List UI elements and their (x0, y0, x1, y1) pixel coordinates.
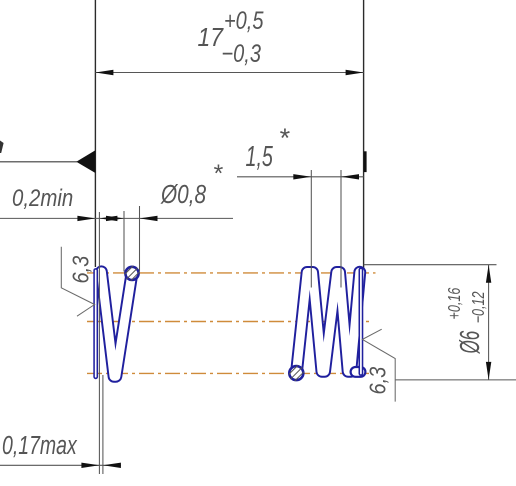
svg-text:6,3: 6,3 (364, 367, 391, 395)
spring: left group coil polyline (101, 272, 131, 377)
svg-text:*: * (213, 160, 224, 188)
shared dim line for 0,2min and diam 0,8 (0, 217, 233, 219)
extension line A (left end face plane, to 17 dim) (94, 0, 96, 267)
centerline bottom (wire axis lower) (87, 372, 370, 374)
dimension 0,17max: right arrowhead (103, 463, 121, 468)
dimension diam 6: bottom arrowhead (486, 362, 491, 380)
leader line with force arrow (0, 161, 77, 163)
svg-text:+0,5: +0,5 (224, 7, 264, 35)
svg-text:+0,16: +0,16 (445, 287, 465, 319)
roughness symbol left (61, 247, 94, 317)
dimension 0,17max: extension line C (102, 375, 104, 474)
centerline top (wire axis upper) (87, 272, 376, 274)
spring: left ground end face (double line) (93, 271, 98, 377)
force arrowhead (large filled triangle) (76, 150, 95, 173)
svg-text:17: 17 (198, 24, 225, 52)
dimension diam 0,8: right arrowhead (140, 216, 158, 221)
dimension 1,5: extension line right (340, 170, 342, 288)
spring: left wire cross-section circle (125, 266, 140, 281)
dimension diam 6: top extension line (364, 264, 497, 266)
centerline middle (spring axis) (87, 321, 371, 323)
extension line right main (right end face plane) (363, 0, 365, 269)
dimension 0,17max: left arrowhead (81, 463, 99, 468)
dimension 17: right arrowhead (346, 70, 364, 75)
dimension 1,5: left arrowhead (293, 174, 311, 179)
clipped mark at left edge (0, 141, 4, 154)
svg-text:Ø0,8: Ø0,8 (160, 180, 206, 209)
dimension 1,5: dim line (237, 176, 364, 178)
svg-text:6,3: 6,3 (67, 256, 94, 284)
dimension diam 0,8: left arrowhead (106, 216, 124, 221)
roughness symbol right (362, 329, 395, 401)
dimension diam 6: bottom extension line (395, 379, 516, 381)
dimension 1,5: right arrowhead (341, 174, 359, 179)
dimension 0,17max: dim line (0, 464, 121, 466)
right support thick bar (364, 151, 367, 172)
dimension 1,5: extension line left (310, 170, 312, 288)
svg-text:0,2min: 0,2min (12, 184, 73, 211)
dimension 0,2min: left arrowhead (77, 216, 95, 221)
svg-text:Ø6: Ø6 (454, 331, 485, 355)
spring: right group coil polyline (297, 272, 360, 372)
spring: right ground end face (double line) (358, 270, 363, 374)
svg-text:−0,12: −0,12 (469, 291, 489, 323)
svg-text:1,5: 1,5 (246, 141, 274, 173)
spring: right wire cross-section circle (289, 365, 304, 381)
svg-text:0,17max: 0,17max (2, 430, 78, 459)
svg-text:*: * (279, 123, 291, 153)
dimension 17: dim line (95, 72, 363, 74)
dimension diam 0,8: extension line left (123, 211, 125, 272)
dimension diam 6: value text rotated (445, 287, 489, 354)
dimension 17: left arrowhead (95, 70, 113, 75)
dimension diam 0,8: extension line right (139, 206, 141, 272)
svg-text:−0,3: −0,3 (222, 40, 262, 68)
dimension 0,2min: extension line B (98, 212, 100, 474)
dimension 0,2min: right arrowhead (99, 216, 117, 221)
spring: right bottom end lobe (356, 366, 361, 378)
dimension diam 6: top arrowhead (486, 265, 491, 283)
dimension diam 6: vertical dim line (488, 265, 490, 380)
